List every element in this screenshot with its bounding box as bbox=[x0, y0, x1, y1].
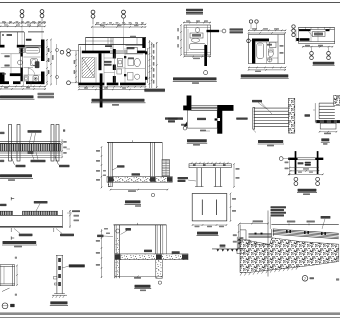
section Q walls bbox=[115, 225, 167, 278]
floor plan 2 walls bbox=[79, 38, 146, 108]
box detail M-1 outline bbox=[192, 194, 227, 221]
floor plan 1 upper rooms bbox=[0, 32, 44, 45]
section G leader notes bbox=[113, 165, 141, 175]
earth section retaining wall bbox=[237, 225, 250, 254]
stair detail title bbox=[187, 139, 207, 145]
plan C note block bbox=[186, 9, 203, 15]
floor plan 2 hatched wardrobe bbox=[82, 58, 95, 78]
section G top slab line bbox=[107, 140, 162, 142]
floor plan 2 dimension lines bbox=[74, 22, 158, 88]
plan C fixtures bbox=[188, 28, 206, 51]
floor plan 1 top dimension lines bbox=[0, 21, 46, 27]
step detail slats bbox=[305, 103, 335, 122]
beam plan bottom bubbles bbox=[294, 177, 320, 185]
plan C outline bbox=[184, 25, 211, 55]
floor plan 1 walls bbox=[0, 40, 45, 85]
stair detail left black wall bbox=[183, 96, 191, 111]
beam elevation section marks and note bbox=[0, 197, 48, 211]
beam plan notes bbox=[298, 162, 311, 166]
plan D bottom dimension lines bbox=[248, 67, 287, 72]
plan E outline bbox=[296, 27, 335, 43]
earth section leader notes bbox=[270, 206, 330, 229]
floor plan 1 axis lines bbox=[22, 18, 42, 49]
earth section earth fill bbox=[240, 238, 339, 276]
box detail M-1 dimensions bbox=[192, 193, 236, 228]
railing elevation title bbox=[0, 174, 33, 181]
beam plan columns bbox=[296, 151, 318, 174]
channel detail legs bbox=[195, 168, 222, 187]
beam elevation lower labels bbox=[11, 228, 74, 240]
plan C lower wall bar and bubble bbox=[204, 45, 208, 75]
step detail base box and dimension bbox=[319, 123, 338, 134]
beam elevation title bbox=[2, 241, 37, 247]
floor plan 2 interior fixtures bbox=[96, 47, 145, 82]
earth section dimensions bbox=[233, 220, 315, 249]
section Q dimensions bbox=[96, 228, 163, 284]
misc mark L bbox=[63, 129, 65, 131]
plan E bottom bubbles bbox=[310, 48, 331, 60]
beam plan beam bbox=[288, 158, 323, 160]
floor plan 2 outline and window band bbox=[79, 36, 148, 86]
section G title bbox=[125, 200, 142, 206]
mullion section base bbox=[52, 294, 67, 298]
section G wall lines bbox=[108, 142, 162, 187]
beam plan axis bubble A bbox=[279, 157, 288, 161]
box detail M-1 title bbox=[197, 232, 219, 236]
railing elevation rails and baluster band bbox=[0, 142, 61, 158]
earth section index bubble bbox=[302, 276, 339, 282]
section G brick column bbox=[162, 160, 170, 177]
floor plan 1 grid bubbles bbox=[20, 10, 44, 23]
earth section top surface line bbox=[268, 211, 339, 277]
plan E interior bbox=[309, 32, 326, 42]
mullion section leader note bbox=[62, 264, 85, 268]
plan E wall segments bbox=[296, 29, 329, 41]
plan C dimension lines bbox=[177, 20, 211, 56]
louver detail title bbox=[258, 140, 284, 146]
section G floor slab bbox=[107, 177, 172, 187]
plan C axis bubble and note bbox=[219, 28, 243, 33]
mullion section title bbox=[50, 301, 68, 305]
railing elevation leader notes bbox=[28, 130, 46, 162]
misc note right of plan 2 bbox=[165, 117, 185, 125]
floor plan 2 grid bubbles bbox=[60, 10, 125, 85]
railing elevation posts bbox=[9, 125, 60, 162]
step detail corner block bbox=[334, 95, 340, 105]
louver detail stippled wall strip bbox=[289, 98, 295, 133]
railing elevation right dimension bbox=[61, 139, 70, 158]
beam plan dimensions bbox=[285, 158, 324, 176]
step detail title bbox=[321, 138, 330, 144]
plan D outline bbox=[248, 35, 285, 64]
earth section pavement layers bbox=[247, 229, 339, 245]
floor plan 2 axis lines bbox=[93, 18, 124, 52]
louver detail slats bbox=[253, 108, 289, 133]
channel detail dimension and label bbox=[178, 163, 240, 188]
plan D title bbox=[241, 74, 289, 78]
mullion section bar bbox=[54, 255, 64, 293]
louver detail leader note bbox=[252, 100, 273, 115]
plan E left axis bubbles bbox=[291, 25, 296, 37]
plan C bottom dimension bbox=[183, 56, 211, 59]
section Q leader notes bbox=[97, 228, 180, 254]
floor plan 2 title bbox=[91, 99, 146, 106]
beam elevation grille strips bbox=[0, 211, 58, 215]
stair detail box and wedge bbox=[184, 110, 218, 128]
step detail dark tread band bbox=[316, 120, 340, 123]
section Q title bbox=[134, 285, 151, 291]
floor plan 1 title bbox=[0, 93, 54, 99]
plan C title bbox=[173, 77, 217, 83]
beam plan title bbox=[297, 189, 317, 195]
stair detail right black wall bbox=[215, 105, 234, 134]
plan C wall bar bbox=[207, 30, 220, 32]
stair detail labels and bubble bbox=[168, 118, 248, 132]
floor plan 1 bottom dimension lines bbox=[0, 86, 46, 90]
plan E title bbox=[313, 62, 335, 66]
railing elevation break marks and labels bbox=[0, 132, 70, 168]
frame corner detail bbox=[0, 257, 18, 286]
stair detail slab layers bbox=[191, 106, 217, 111]
channel detail top flange bbox=[189, 162, 231, 168]
plan D T-shaped wall bbox=[252, 39, 269, 64]
section Q floor slab and leg bbox=[115, 254, 188, 278]
plan E dimension line bbox=[302, 45, 333, 48]
beam elevation right dimension bbox=[67, 210, 80, 228]
frame corner detail marks bbox=[2, 288, 17, 309]
plan D fixtures bbox=[257, 42, 276, 62]
floor plan 1 right dimension chain bbox=[46, 39, 58, 86]
floor plan 2 bottom dimension lines bbox=[78, 86, 165, 92]
earth section ground line bbox=[212, 245, 240, 252]
plan D top dimension lines bbox=[248, 28, 287, 34]
beam elevation beam band bbox=[0, 210, 63, 228]
floor plan 1 bathroom fixtures bbox=[1, 48, 41, 87]
section G dimensions bbox=[96, 146, 168, 196]
plan D grid bubbles bbox=[247, 20, 259, 43]
section Q ceiling line bbox=[114, 223, 167, 225]
